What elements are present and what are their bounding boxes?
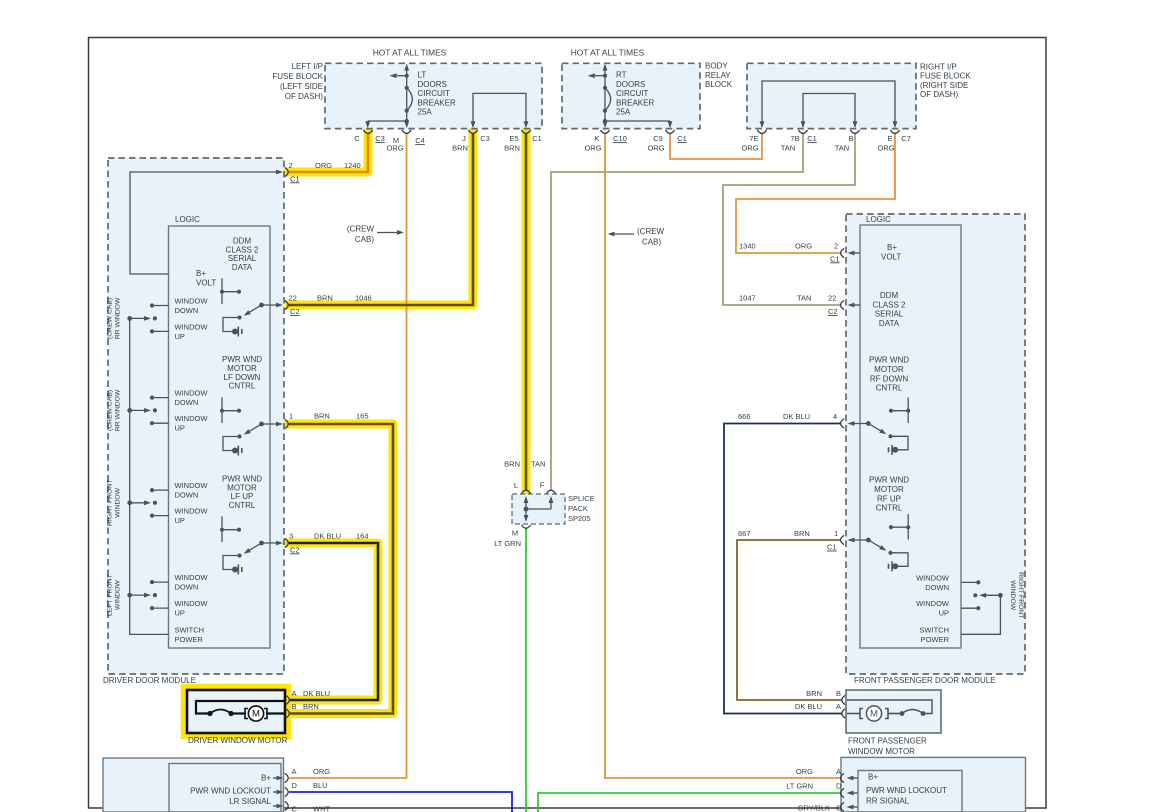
svg-text:HOT AT ALL TIMES: HOT AT ALL TIMES (373, 48, 447, 58)
svg-text:CLASS 2: CLASS 2 (873, 300, 906, 309)
left I/P fuse block box (325, 63, 542, 128)
wire DK BLU 666 (724, 424, 842, 714)
svg-text:SERIAL: SERIAL (228, 254, 257, 263)
svg-text:MOTOR: MOTOR (874, 485, 904, 494)
wire ORG 1240 core (289, 133, 368, 172)
svg-text:1046: 1046 (355, 294, 372, 303)
svg-text:CNTRL: CNTRL (876, 384, 903, 393)
svg-text:WINDOW MOTOR: WINDOW MOTOR (848, 747, 915, 756)
svg-text:A: A (292, 767, 297, 776)
right fuse block fill (747, 63, 916, 128)
svg-text:DOWN: DOWN (175, 398, 199, 407)
border frame (89, 38, 1047, 809)
circuit breaker LT DOORS 25A (406, 66, 408, 121)
svg-text:WINDOW: WINDOW (916, 573, 950, 582)
svg-text:DOWN: DOWN (925, 583, 949, 592)
svg-text:ORG: ORG (741, 144, 758, 153)
svg-text:F: F (540, 481, 545, 490)
svg-text:WINDOW: WINDOW (115, 487, 122, 517)
left fuse block fill (325, 63, 542, 128)
splice L cup (521, 490, 530, 493)
svg-text:C: C (836, 804, 842, 812)
svg-text:PWR WND: PWR WND (869, 356, 909, 365)
svg-text:C: C (292, 805, 298, 812)
svg-text:ORG: ORG (796, 767, 813, 776)
lr pin C arrow (273, 805, 281, 807)
svg-text:FUSE BLOCK: FUSE BLOCK (272, 72, 323, 81)
svg-text:CNTRL: CNTRL (229, 501, 256, 510)
svg-text:BLOCK: BLOCK (705, 80, 733, 89)
svg-text:TAN: TAN (531, 460, 545, 469)
rr pin A connector (841, 773, 844, 782)
svg-text:C3: C3 (480, 134, 490, 143)
passenger motor pin A connector (842, 709, 845, 718)
rr pin D arrow (849, 792, 858, 794)
svg-text:TAN: TAN (781, 144, 795, 153)
switch right front window (152, 489, 169, 491)
svg-text:1047: 1047 (739, 294, 756, 303)
right fuse block internal links (762, 81, 895, 126)
pin 4 right connector (841, 419, 844, 428)
svg-text:C1: C1 (830, 254, 840, 263)
driver output DDM class2 pin 22 (221, 278, 223, 304)
svg-text:RF UP: RF UP (877, 494, 901, 503)
svg-text:WINDOW: WINDOW (175, 481, 209, 490)
front passenger window motor M2 (846, 690, 941, 733)
svg-text:E5: E5 (509, 134, 518, 143)
pin 22 C2 connector (285, 300, 288, 309)
svg-text:WINDOW: WINDOW (175, 389, 209, 398)
wire B+ VOLT internal (130, 172, 281, 274)
svg-text:2: 2 (289, 161, 293, 170)
lr pin A arrow (273, 777, 281, 779)
pwr wnd lockout lr fill (103, 758, 284, 812)
svg-text:WINDOW: WINDOW (115, 580, 122, 610)
pin 7B cup (798, 130, 807, 133)
svg-text:B+: B+ (196, 269, 206, 278)
svg-text:B+: B+ (868, 773, 878, 782)
right I/P fuse block box (747, 63, 916, 128)
lr pin D connector (285, 787, 288, 796)
circuit breaker RT DOORS 25A (604, 66, 606, 121)
svg-text:(CREW CAB): (CREW CAB) (107, 298, 114, 339)
wire BRN 667 (737, 540, 842, 700)
pin 2 C1 right connector (841, 248, 844, 257)
svg-text:B: B (848, 134, 853, 143)
wire ORG C9 to 7E (670, 133, 762, 159)
svg-text:PACK: PACK (568, 504, 588, 513)
svg-text:C2: C2 (290, 545, 300, 554)
rr pin C arrow (849, 806, 858, 808)
svg-text:MOTOR: MOTOR (874, 365, 904, 374)
pwr wnd lockout rr fill (841, 757, 1026, 812)
wire BRN 1046 core (289, 133, 473, 305)
svg-text:DOORS: DOORS (616, 80, 645, 89)
pin M cup (402, 130, 411, 133)
pin E cup (890, 130, 899, 133)
motor pin A connector (286, 695, 289, 704)
svg-text:WINDOW: WINDOW (175, 599, 209, 608)
svg-text:L: L (514, 481, 518, 490)
svg-text:LT GRN: LT GRN (786, 782, 813, 791)
svg-text:C: C (354, 134, 360, 143)
svg-text:666: 666 (738, 412, 751, 421)
svg-text:CNTRL: CNTRL (229, 382, 256, 391)
svg-text:C1: C1 (290, 174, 300, 183)
pin B cup (850, 130, 859, 133)
splice F cup (546, 490, 555, 493)
svg-text:DRIVER WINDOW MOTOR: DRIVER WINDOW MOTOR (188, 736, 288, 745)
svg-text:HOT AT ALL TIMES: HOT AT ALL TIMES (571, 48, 645, 58)
svg-text:CIRCUIT: CIRCUIT (418, 89, 451, 98)
svg-text:WINDOW: WINDOW (175, 507, 209, 516)
switch left front window (152, 581, 169, 583)
wire BRN E5 to splice L core (525, 133, 528, 490)
svg-text:LF DOWN: LF DOWN (224, 373, 261, 382)
switch crew cab rr window 2 (152, 397, 169, 399)
pwr wnd lockout rr module box (841, 757, 1026, 812)
svg-text:A: A (292, 689, 297, 698)
svg-text:D: D (292, 781, 298, 790)
svg-text:POWER: POWER (175, 635, 204, 644)
wire BRN 165 core (289, 424, 393, 714)
switch crew cab rr window 1 (152, 305, 169, 307)
pin 2 C1 connector (285, 167, 288, 176)
svg-text:25A: 25A (418, 108, 433, 117)
svg-text:DOORS: DOORS (418, 80, 447, 89)
svg-text:RIGHT I/P: RIGHT I/P (920, 63, 957, 72)
wire TAN 1047 (723, 133, 855, 305)
svg-text:FRONT PASSENGER: FRONT PASSENGER (848, 737, 927, 746)
svg-text:DK BLU: DK BLU (303, 689, 330, 698)
svg-text:BRN: BRN (317, 294, 333, 303)
svg-text:C4: C4 (415, 136, 425, 145)
pin C9 cup (665, 130, 674, 133)
pin C cup (363, 130, 372, 133)
svg-text:WINDOW: WINDOW (1009, 580, 1016, 610)
pin 1 connector (285, 419, 288, 428)
svg-text:(CREW: (CREW (347, 225, 375, 234)
svg-text:BREAKER: BREAKER (616, 98, 654, 107)
svg-text:WINDOW: WINDOW (916, 599, 950, 608)
svg-text:SPLICE: SPLICE (568, 494, 595, 503)
svg-text:RR WINDOW: RR WINDOW (115, 389, 122, 431)
wire DK BLU 164 core (289, 543, 378, 700)
pin 22 C2 right connector (841, 300, 844, 309)
svg-text:7B: 7B (790, 134, 799, 143)
svg-text:DATA: DATA (232, 263, 253, 272)
pin 3 C2 connector (285, 538, 288, 547)
svg-text:C10: C10 (613, 134, 627, 143)
svg-text:A: A (836, 702, 841, 711)
svg-text:WINDOW: WINDOW (175, 414, 209, 423)
wire ORG 1340 (736, 133, 895, 253)
pin 2 arrow (276, 170, 283, 175)
svg-text:SERIAL: SERIAL (875, 310, 904, 319)
svg-text:(RIGHT SIDE: (RIGHT SIDE (920, 81, 968, 90)
passenger output RF DOWN pin 4 (907, 398, 909, 424)
svg-text:SWITCH: SWITCH (175, 626, 205, 635)
svg-text:(CREW CAB): (CREW CAB) (107, 390, 114, 431)
svg-text:3: 3 (289, 532, 293, 541)
passenger motor pin B connector (842, 695, 845, 704)
svg-text:CAB): CAB) (642, 238, 661, 247)
rr pin C connector (841, 802, 844, 811)
svg-text:2: 2 (834, 242, 838, 251)
motor pin B connector (286, 709, 289, 718)
svg-text:(CREW: (CREW (637, 227, 665, 236)
svg-text:E: E (887, 134, 892, 143)
switch power trunk (130, 318, 169, 634)
svg-text:BRN: BRN (314, 412, 330, 421)
svg-text:DK BLU: DK BLU (314, 532, 341, 541)
svg-text:PWR WND LOCKOUT: PWR WND LOCKOUT (866, 786, 947, 795)
splice pack SP205 (512, 494, 565, 524)
svg-text:WINDOW: WINDOW (175, 573, 209, 582)
svg-text:CIRCUIT: CIRCUIT (616, 89, 649, 98)
svg-text:ORG: ORG (584, 144, 601, 153)
svg-text:ORG: ORG (795, 242, 812, 251)
svg-text:22: 22 (828, 294, 836, 303)
svg-text:1340: 1340 (739, 242, 756, 251)
svg-text:PWR WND: PWR WND (222, 355, 262, 364)
svg-text:C1: C1 (807, 134, 817, 143)
svg-text:TAN: TAN (797, 294, 811, 303)
svg-text:LEFT FRONT: LEFT FRONT (107, 574, 114, 616)
lr pin A connector (285, 773, 288, 782)
svg-text:WINDOW: WINDOW (175, 322, 209, 331)
body relay block box (562, 63, 700, 128)
svg-text:BRN: BRN (794, 529, 810, 538)
svg-text:POWER: POWER (921, 635, 950, 644)
pwr wnd lockout lr module box (103, 758, 284, 812)
driver door module outer box (108, 158, 284, 674)
svg-text:TAN: TAN (835, 144, 849, 153)
svg-text:CLASS 2: CLASS 2 (226, 245, 259, 254)
svg-text:1240: 1240 (344, 161, 361, 170)
driver output LF UP pin 3 (221, 516, 223, 542)
wire TAN 7B to splice F (551, 133, 803, 490)
svg-text:C3: C3 (375, 134, 385, 143)
svg-text:DOWN: DOWN (175, 583, 199, 592)
driver door module inner logic box (169, 226, 271, 648)
svg-text:22: 22 (289, 294, 297, 303)
svg-text:RIGHT FRONT: RIGHT FRONT (107, 480, 114, 526)
svg-text:UP: UP (175, 609, 185, 618)
svg-text:C1: C1 (677, 134, 687, 143)
svg-text:CNTRL: CNTRL (876, 504, 903, 513)
driver window motor M1 (187, 690, 285, 733)
svg-text:C2: C2 (290, 307, 300, 316)
pin K cup (600, 130, 609, 133)
svg-text:165: 165 (356, 412, 369, 421)
driver door module fill (108, 158, 284, 674)
svg-text:CAB): CAB) (355, 235, 374, 244)
svg-text:DDM: DDM (233, 237, 252, 246)
svg-text:ORG: ORG (647, 144, 664, 153)
svg-text:4: 4 (833, 412, 837, 421)
svg-text:UP: UP (175, 332, 185, 341)
svg-text:SP205: SP205 (568, 514, 591, 523)
svg-text:A: A (836, 767, 841, 776)
wire ORG from M-C4 to LR lockout A (289, 133, 407, 778)
rr pin D connector (841, 788, 844, 797)
svg-text:C1: C1 (827, 543, 837, 552)
svg-text:BRN: BRN (303, 702, 319, 711)
svg-text:PWR WND: PWR WND (869, 476, 909, 485)
rr pin A arrow (849, 777, 858, 779)
svg-text:1: 1 (834, 529, 838, 538)
svg-text:7E: 7E (749, 134, 758, 143)
svg-text:RT: RT (616, 71, 627, 80)
svg-text:LF UP: LF UP (231, 492, 254, 501)
svg-text:C7: C7 (901, 134, 911, 143)
svg-text:ORG: ORG (877, 144, 894, 153)
svg-text:ORG: ORG (315, 161, 332, 170)
svg-text:M: M (870, 709, 878, 720)
svg-text:WHT: WHT (313, 805, 330, 812)
svg-text:VOLT: VOLT (196, 279, 216, 288)
svg-text:DK BLU: DK BLU (795, 702, 822, 711)
svg-text:RF DOWN: RF DOWN (870, 374, 908, 383)
svg-text:25A: 25A (616, 108, 631, 117)
svg-text:DOWN: DOWN (175, 491, 199, 500)
svg-text:MOTOR: MOTOR (227, 364, 257, 373)
svg-text:DATA: DATA (879, 319, 900, 328)
svg-text:1: 1 (289, 412, 293, 421)
svg-text:M: M (252, 709, 260, 720)
svg-text:PWR WND LOCKOUT: PWR WND LOCKOUT (190, 787, 271, 796)
svg-text:RR SIGNAL: RR SIGNAL (866, 797, 910, 806)
svg-text:LR SIGNAL: LR SIGNAL (229, 797, 271, 806)
svg-text:OF DASH): OF DASH) (920, 90, 959, 99)
svg-text:C2: C2 (828, 307, 838, 316)
svg-text:B+: B+ (887, 243, 897, 252)
svg-text:C1: C1 (532, 134, 542, 143)
svg-text:M: M (512, 529, 518, 538)
svg-text:PWR WND: PWR WND (222, 475, 262, 484)
switch right front window passenger (961, 581, 978, 583)
svg-text:BREAKER: BREAKER (418, 98, 456, 107)
svg-text:RR WINDOW: RR WINDOW (115, 297, 122, 339)
svg-text:GRY/BLK: GRY/BLK (798, 804, 830, 812)
svg-text:LOGIC: LOGIC (175, 215, 200, 224)
svg-text:ORG: ORG (386, 144, 403, 153)
splice pack fill (512, 494, 565, 524)
svg-text:LT: LT (418, 71, 427, 80)
svg-text:K: K (594, 134, 599, 143)
driver output LF DOWN pin 1 (221, 397, 223, 423)
svg-text:BRN: BRN (504, 460, 520, 469)
svg-text:164: 164 (356, 532, 369, 541)
highlight glow for powered circuit (289, 132, 368, 172)
pin 7E cup (757, 130, 766, 133)
svg-text:LT GRN: LT GRN (494, 539, 521, 548)
svg-text:VOLT: VOLT (881, 253, 901, 262)
left fuse block internal link J to E5 (473, 93, 526, 126)
svg-text:(LEFT SIDE: (LEFT SIDE (280, 82, 323, 91)
passenger output RF UP pin 1 (907, 514, 909, 540)
lr pin C connector (285, 801, 288, 810)
driver window motor fill (187, 690, 285, 733)
pin2 right arrow (850, 252, 860, 254)
svg-text:DK BLU: DK BLU (783, 412, 810, 421)
svg-text:DDM: DDM (880, 291, 899, 300)
svg-text:RIGHT FRONT: RIGHT FRONT (1017, 572, 1024, 618)
pin J cup (468, 130, 477, 133)
svg-text:BRN: BRN (452, 144, 468, 153)
svg-text:C9: C9 (653, 134, 663, 143)
svg-text:MOTOR: MOTOR (227, 483, 257, 492)
lr pin D arrow (273, 791, 281, 793)
svg-text:UP: UP (939, 609, 949, 618)
svg-text:OF DASH): OF DASH) (285, 92, 324, 101)
svg-text:DRIVER DOOR MODULE: DRIVER DOOR MODULE (103, 676, 196, 685)
svg-text:WINDOW: WINDOW (175, 296, 209, 305)
svg-text:UP: UP (175, 424, 185, 433)
front passenger door module fill (846, 214, 1025, 674)
pin 1 C1 right connector (841, 535, 844, 544)
svg-text:FUSE BLOCK: FUSE BLOCK (920, 72, 971, 81)
svg-text:DOWN: DOWN (175, 306, 199, 315)
wire LT GRN splice M down (525, 528, 527, 812)
svg-text:UP: UP (175, 516, 185, 525)
svg-text:B: B (836, 689, 841, 698)
splice M cup (521, 525, 530, 528)
svg-text:RELAY: RELAY (705, 71, 731, 80)
svg-text:B: B (292, 702, 297, 711)
pin22 right arrow (850, 304, 860, 306)
front passenger door module outer box (846, 214, 1025, 674)
wire ORG from K-C10 to RR lockout A (605, 133, 841, 778)
front passenger window motor fill (846, 690, 941, 733)
svg-text:B+: B+ (261, 774, 271, 783)
svg-text:667: 667 (738, 529, 751, 538)
body relay block fill (562, 63, 700, 128)
front passenger module inner logic box (860, 225, 961, 648)
svg-text:ORG: ORG (313, 767, 330, 776)
svg-text:BLU: BLU (313, 781, 328, 790)
svg-text:FRONT PASSENGER DOOR MODULE: FRONT PASSENGER DOOR MODULE (854, 676, 996, 685)
svg-text:LOGIC: LOGIC (866, 215, 891, 224)
svg-text:LEFT I/P: LEFT I/P (292, 62, 323, 71)
svg-text:J: J (462, 134, 466, 143)
wire BLU LR lockout D (289, 792, 512, 812)
pin E5 cup (521, 130, 530, 133)
svg-text:SWITCH: SWITCH (919, 625, 949, 634)
svg-text:BODY: BODY (705, 62, 728, 71)
wire LT GRN RR lockout D (538, 793, 841, 812)
svg-text:D: D (836, 782, 842, 791)
svg-text:BRN: BRN (504, 144, 520, 153)
svg-text:BRN: BRN (806, 689, 822, 698)
